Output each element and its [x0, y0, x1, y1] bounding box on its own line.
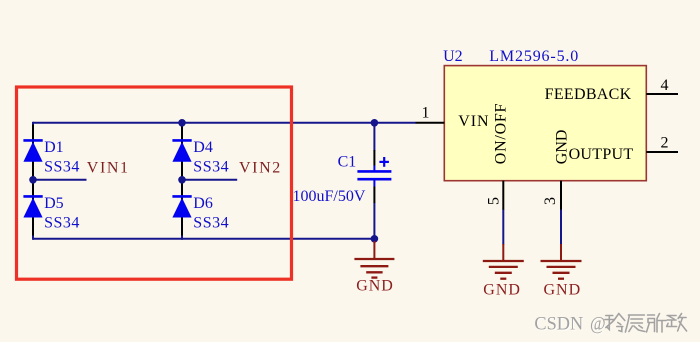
svg-text:3: 3	[542, 197, 559, 205]
ground symbol at pin 3	[541, 244, 582, 299]
svg-text:GND: GND	[483, 282, 521, 299]
junction dot bottom capacitor	[371, 235, 379, 243]
junction dot top column 2	[178, 119, 186, 127]
wire column 1 vertical	[32, 122, 34, 240]
svg-text:D6: D6	[193, 195, 213, 212]
svg-text:LM2596-5.0: LM2596-5.0	[489, 48, 579, 65]
svg-text:SS34: SS34	[44, 159, 80, 176]
svg-text:ON/OFF: ON/OFF	[493, 103, 510, 164]
svg-text:VIN2: VIN2	[239, 160, 282, 177]
svg-text:GND: GND	[356, 278, 394, 295]
svg-text:D5: D5	[44, 195, 64, 212]
svg-text:U2: U2	[443, 48, 463, 65]
svg-text:2: 2	[661, 135, 669, 152]
pin 3 GND	[542, 130, 571, 245]
capacitor C1	[338, 123, 392, 239]
svg-text:SS34: SS34	[193, 215, 229, 232]
wire VIN2 stub	[182, 179, 237, 181]
wire VIN1 stub	[33, 179, 87, 181]
ground symbol at pin 5	[483, 244, 524, 299]
pin 5 ON/OFF	[486, 103, 510, 245]
diode D5	[23, 195, 79, 232]
red highlight box	[17, 87, 292, 279]
svg-text:D1: D1	[44, 139, 64, 156]
svg-text:4: 4	[661, 77, 669, 94]
svg-text:GND: GND	[554, 130, 571, 165]
svg-text:D4: D4	[193, 139, 213, 156]
wire bottom bus (GND net)	[33, 238, 374, 240]
svg-text:100uF/50V: 100uF/50V	[293, 188, 366, 205]
pin 1 VIN	[416, 104, 490, 130]
wire column 2 vertical	[181, 122, 183, 240]
diode D6	[172, 195, 229, 232]
svg-text:VIN1: VIN1	[87, 160, 130, 177]
svg-text:VIN: VIN	[458, 113, 489, 130]
diode D1	[23, 139, 79, 176]
wire top bus (VIN net)	[33, 122, 416, 124]
svg-text:@: @	[590, 314, 606, 335]
junction dot top capacitor	[371, 119, 379, 127]
svg-text:SS34: SS34	[44, 215, 80, 232]
diode D4	[172, 139, 229, 176]
junction dot VIN1 tap	[29, 176, 37, 184]
svg-text:FEEDBACK: FEEDBACK	[545, 86, 632, 103]
ground symbol at C1	[354, 241, 394, 295]
svg-text:C1: C1	[338, 153, 357, 170]
IC U2 LM2596-5.0 body	[443, 48, 646, 181]
watermark CSDN	[534, 314, 606, 336]
svg-text:CSDN: CSDN	[534, 314, 583, 335]
pin 4 FEEDBACK	[545, 77, 678, 103]
junction dot VIN2 tap	[178, 176, 186, 184]
svg-text:OUTPUT: OUTPUT	[569, 146, 634, 163]
svg-text:1: 1	[422, 104, 430, 121]
svg-text:GND: GND	[544, 282, 582, 299]
pin 2 OUTPUT	[569, 135, 678, 164]
svg-text:5: 5	[486, 197, 503, 205]
watermark CJK glyphs	[605, 314, 687, 333]
svg-text:SS34: SS34	[193, 159, 229, 176]
